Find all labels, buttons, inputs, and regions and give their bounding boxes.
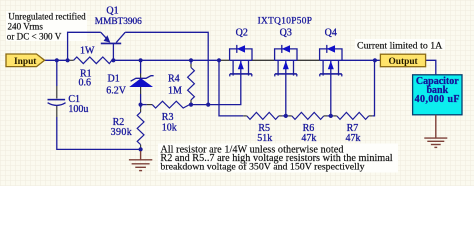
wire Q1 collector to gate node — [125, 32, 208, 104]
resistor R3 — [141, 101, 190, 108]
mosfet Q3 P-channel — [275, 45, 297, 77]
resistor R4 — [188, 60, 195, 104]
svg-text:0.6: 0.6 — [79, 77, 92, 88]
note resistor specs — [160, 144, 392, 172]
svg-text:1M: 1M — [168, 86, 182, 97]
junction Q4 gate / R6-R7 — [329, 114, 333, 118]
wire (dark) Q2 drain to Q3 source — [252, 59, 275, 61]
svg-text:Unregulated rectified: Unregulated rectified — [8, 12, 86, 22]
svg-text:40,000 uF: 40,000 uF — [415, 94, 460, 105]
junction R4 top rail — [189, 58, 193, 62]
wire Q3 gate drop — [285, 74, 287, 116]
junction D1 anode / R2 / R3 — [139, 103, 143, 107]
junction Q3 gate / R5-R6 — [284, 114, 288, 118]
mosfet Q4 P-channel — [320, 45, 342, 77]
junction C1 branch — [55, 58, 59, 62]
note input rating — [7, 12, 86, 42]
resistor R2 — [137, 105, 144, 150]
svg-text:R4: R4 — [168, 74, 180, 85]
junction ladder tap rail — [217, 58, 221, 62]
junction gate node — [206, 103, 210, 107]
wire gate bus to Q2 gate — [190, 74, 241, 105]
note background bottom — [158, 144, 398, 173]
pin C1 top — [56, 86, 58, 99]
svg-text:breakdown voltage of 350V and: breakdown voltage of 350V and 150V respe… — [160, 162, 364, 173]
svg-text:100u: 100u — [68, 104, 88, 115]
svg-text:D1: D1 — [108, 74, 120, 85]
svg-text:6.2V: 6.2V — [106, 86, 127, 97]
wire ladder feed down from rail — [219, 60, 243, 116]
port Input — [6, 54, 45, 67]
junction D1 cathode rail — [139, 58, 143, 62]
note background current-limit — [355, 39, 445, 50]
svg-text:Output: Output — [389, 57, 419, 67]
svg-text:1W: 1W — [80, 46, 95, 57]
junction ground node — [139, 147, 143, 151]
ground capacitor bank — [424, 115, 447, 148]
svg-text:Q4: Q4 — [325, 28, 337, 39]
svg-text:R6: R6 — [303, 123, 315, 134]
pin C1 bottom — [56, 106, 58, 118]
wire input to node A — [45, 59, 69, 61]
svg-text:10k: 10k — [162, 123, 177, 134]
svg-text:51k: 51k — [257, 133, 272, 144]
capacitor C1 (polarized) — [48, 99, 66, 106]
svg-text:47k: 47k — [346, 133, 361, 144]
wire output to capacitor bank — [426, 60, 436, 75]
svg-text:390k: 390k — [111, 127, 133, 138]
ground main — [129, 151, 152, 171]
wire R7 up to output node — [372, 60, 374, 116]
capacitor bank block 40,000 uF — [413, 75, 462, 115]
svg-text:Input: Input — [14, 57, 37, 67]
svg-text:47k: 47k — [301, 133, 316, 144]
wire Q4 gate drop — [330, 74, 332, 116]
wire main rail R1 to ladder tap — [113, 59, 219, 61]
transistor Q1 PNP MMBT3906 — [101, 32, 125, 60]
port Output — [380, 54, 425, 67]
resistor R5 — [243, 112, 285, 119]
svg-text:Q3: Q3 — [280, 28, 292, 39]
junction Q1 base / R1 — [111, 58, 115, 62]
resistor R6 — [286, 112, 331, 119]
wire C1 branch from rail — [56, 60, 58, 86]
zener diode D1 — [129, 60, 153, 104]
svg-text:Q1: Q1 — [106, 6, 118, 17]
svg-text:IXTQ10P50P: IXTQ10P50P — [258, 17, 313, 27]
svg-text:or DC < 300 V: or DC < 300 V — [7, 32, 62, 42]
wire ground bus — [57, 117, 141, 149]
note background top-left — [6, 11, 87, 41]
svg-text:R3: R3 — [162, 112, 174, 123]
resistor R1 — [68, 57, 114, 64]
mosfet Q2 P-channel — [230, 45, 252, 77]
wire Q4 drain to Output — [342, 59, 380, 61]
wire (dark) Q3 drain to Q4 source — [297, 59, 320, 61]
resistor R7 — [331, 112, 373, 119]
svg-text:240 Vrms: 240 Vrms — [8, 21, 44, 31]
junction output node — [373, 58, 377, 62]
wire node A up to Q1 emitter — [68, 32, 101, 60]
svg-text:R7: R7 — [347, 123, 359, 134]
svg-text:R5: R5 — [258, 123, 270, 134]
junction R3 / R4 bottom — [189, 103, 193, 107]
svg-text:Q2: Q2 — [236, 28, 248, 39]
svg-text:Current limited to 1A: Current limited to 1A — [357, 41, 443, 52]
junction node A emitter branch — [66, 58, 70, 62]
wire (dark) ladder tap to Q2 source — [219, 59, 230, 61]
svg-text:MMBT3906: MMBT3906 — [95, 17, 142, 27]
